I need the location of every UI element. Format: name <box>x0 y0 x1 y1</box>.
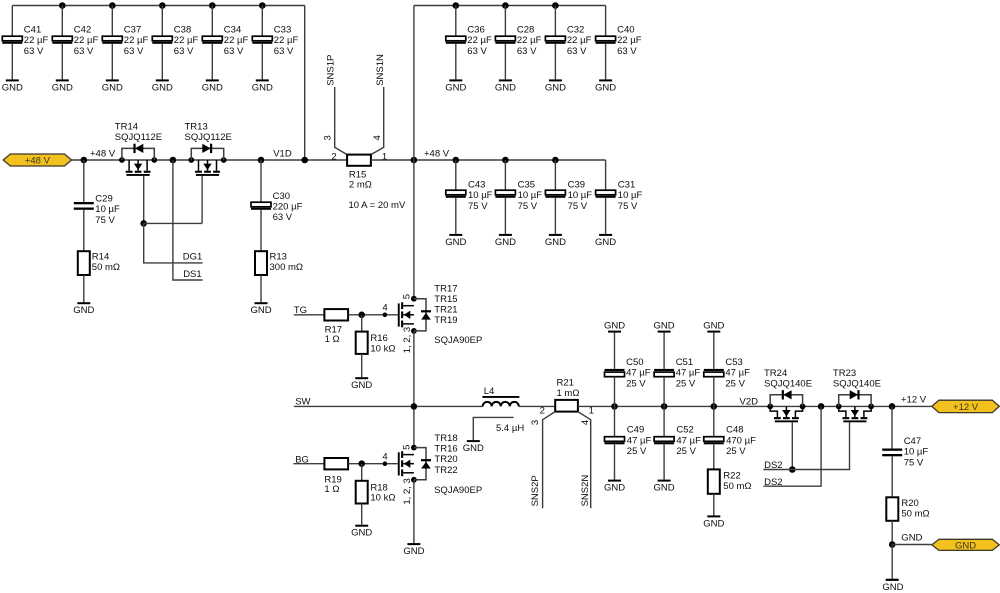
wire R14 to ground <box>83 275 85 302</box>
pin dot TR24 source <box>800 404 806 410</box>
transistor TR23 <box>839 390 871 422</box>
svg-text:TR20: TR20 <box>434 454 457 465</box>
wire C35 bottom lead <box>504 198 506 234</box>
wire V2D row R21 to +12V flag <box>578 405 932 407</box>
svg-text:GND: GND <box>102 82 123 93</box>
wire SNS1N sense lead <box>371 87 384 155</box>
junction at C36 column <box>453 2 460 9</box>
resistor R16 <box>356 332 368 354</box>
wire R18 top lead <box>361 464 363 481</box>
svg-text:SNS2N: SNS2N <box>580 475 591 507</box>
svg-text:C28: C28 <box>517 24 534 35</box>
capacitor C50 <box>605 369 625 377</box>
wire +48V rail down to TR17 <box>413 6 415 299</box>
capacitor C49 <box>605 437 625 445</box>
svg-text:V1D: V1D <box>273 148 292 159</box>
svg-text:2 mΩ: 2 mΩ <box>349 180 372 191</box>
junction TR14/TR13 mid node (DS1) <box>170 157 177 164</box>
svg-text:22 µF: 22 µF <box>517 35 542 46</box>
capacitor C30 <box>251 202 271 210</box>
svg-text:50 mΩ: 50 mΩ <box>901 508 929 519</box>
svg-text:4: 4 <box>580 420 591 425</box>
transistor TR14 <box>122 144 154 176</box>
wire C51 lower lead <box>663 377 665 407</box>
wire SW to R21 <box>519 405 555 407</box>
svg-text:GND: GND <box>604 483 625 494</box>
junction at C53/C48 column <box>711 403 718 410</box>
wire TR14 gate drop <box>143 176 145 224</box>
wire C53 lower lead <box>713 377 715 407</box>
inductor L4 <box>482 396 519 406</box>
capacitor C53 <box>704 369 724 377</box>
svg-text:GND: GND <box>202 82 223 93</box>
wire gate tie TR14-TR13 <box>144 222 202 224</box>
wire C38 bottom lead <box>161 44 163 80</box>
shunt resistor R15 <box>347 155 371 166</box>
capacitor C48 <box>704 437 724 445</box>
wire C29 to R14 <box>83 210 85 251</box>
resistor R19 <box>324 458 348 469</box>
svg-text:10 µF: 10 µF <box>518 190 543 201</box>
ground <box>351 377 372 391</box>
resistor R18 <box>356 481 368 504</box>
wire rail drop to V1D node <box>304 6 306 161</box>
wire R19 to gate <box>348 463 398 465</box>
svg-text:C30: C30 <box>273 191 290 202</box>
wire C43 top lead <box>455 160 457 190</box>
wire C40 top lead <box>605 6 607 37</box>
junction +48V rail node <box>411 157 418 164</box>
svg-text:63 V: 63 V <box>617 46 637 57</box>
svg-text:10 µF: 10 µF <box>568 190 593 201</box>
power flag +48 V <box>3 154 71 166</box>
svg-text:TR13: TR13 <box>185 122 208 133</box>
svg-text:C37: C37 <box>124 24 141 35</box>
transistor TR17 <box>398 299 431 331</box>
svg-text:GND: GND <box>463 443 484 454</box>
pin dot gate pin 4 <box>383 461 388 466</box>
wire C53 upper lead <box>713 333 715 369</box>
svg-text:22 µF: 22 µF <box>174 35 199 46</box>
svg-text:75 V: 75 V <box>568 201 588 212</box>
ground <box>2 79 23 93</box>
resistor R14 <box>78 251 90 275</box>
capacitor C52 <box>654 437 674 445</box>
capacitor C40 <box>596 36 616 44</box>
wire C30 to R13 <box>260 210 262 251</box>
junction at C42 column <box>59 2 66 9</box>
transistor TR24 <box>770 390 802 422</box>
wire C29 top lead <box>83 160 85 202</box>
svg-text:V2D: V2D <box>740 397 759 408</box>
pin dot TR18 source (1,2,3) <box>411 477 417 483</box>
svg-text:C40: C40 <box>617 24 634 35</box>
wire R16 to ground <box>361 354 363 377</box>
wire to DG1 stub <box>144 223 203 263</box>
junction SW rail node <box>411 403 418 410</box>
pin dot TR23 drain <box>868 404 874 410</box>
junction at C34 column <box>209 2 216 9</box>
wire TR24 gate drop <box>791 422 793 469</box>
wire C51 upper lead <box>663 333 665 369</box>
transistor TR13 <box>191 144 223 176</box>
svg-text:47 µF: 47 µF <box>676 368 701 379</box>
svg-text:SQJQ140E: SQJQ140E <box>764 378 812 389</box>
ground <box>545 234 566 248</box>
svg-text:GND: GND <box>351 380 372 391</box>
svg-text:+48 V: +48 V <box>424 148 450 159</box>
wire main +48V row (flag to R15) <box>72 159 348 161</box>
wire C37 top lead <box>111 6 113 37</box>
svg-text:R22: R22 <box>723 471 740 482</box>
svg-text:GND: GND <box>2 82 23 93</box>
svg-text:C51: C51 <box>676 357 693 368</box>
wire V1D row R15 to +48V node and right caps <box>371 159 606 161</box>
ground <box>654 480 675 494</box>
wire C34 top lead <box>211 6 213 37</box>
svg-text:TR21: TR21 <box>434 304 457 315</box>
wire C50 lower lead <box>614 377 616 407</box>
wire C31 top lead <box>605 160 607 190</box>
wire R17 to gate <box>348 314 398 316</box>
capacitor C32 <box>545 36 565 44</box>
junction at C35 column <box>502 157 509 164</box>
junction C30/V1D tap <box>258 157 265 164</box>
svg-text:C39: C39 <box>568 179 585 190</box>
svg-text:10 µF: 10 µF <box>618 190 643 201</box>
wire TG lead <box>294 314 325 316</box>
svg-text:75 V: 75 V <box>468 201 488 212</box>
svg-text:10 µF: 10 µF <box>904 447 929 458</box>
junction at C51/C52 column <box>661 403 668 410</box>
svg-text:63 V: 63 V <box>467 46 487 57</box>
junction at C43 column <box>453 157 460 164</box>
wire C37 bottom lead <box>111 44 113 80</box>
svg-text:C47: C47 <box>904 436 921 447</box>
pin dot TR14 source <box>151 157 157 163</box>
wire BG lead <box>293 463 324 465</box>
ground <box>703 515 724 529</box>
wire C28 top lead <box>504 6 506 37</box>
svg-text:GND: GND <box>52 82 73 93</box>
ground <box>595 79 616 93</box>
svg-text:4: 4 <box>382 452 387 463</box>
wire DS2 line 1 <box>763 422 849 469</box>
pin dot TR18 drain (5) <box>411 445 417 451</box>
wire TR13 gate drop <box>201 176 203 224</box>
wire C32 bottom lead <box>554 44 556 80</box>
svg-text:GND: GND <box>351 528 372 539</box>
wire C40 bottom lead <box>605 44 607 80</box>
junction V1D / top rail node <box>301 157 308 164</box>
svg-text:1 Ω: 1 Ω <box>324 484 339 495</box>
svg-text:C53: C53 <box>725 357 742 368</box>
wire C31 bottom lead <box>605 198 607 234</box>
svg-text:GND: GND <box>250 305 271 316</box>
pin dot TR17 drain (5) <box>411 296 417 302</box>
wire L4 shield lead <box>473 417 513 440</box>
svg-text:63 V: 63 V <box>124 46 144 57</box>
wire C48 upper lead <box>713 406 715 436</box>
ground <box>495 234 516 248</box>
svg-text:5: 5 <box>401 294 412 299</box>
wire C47 to R20 <box>891 456 893 497</box>
svg-text:C33: C33 <box>274 24 291 35</box>
svg-text:47 µF: 47 µF <box>627 435 652 446</box>
capacitor C35 <box>495 190 515 198</box>
junction at C37 column <box>109 2 116 9</box>
svg-text:75 V: 75 V <box>518 201 538 212</box>
junction at C38 column <box>159 2 166 9</box>
svg-text:3: 3 <box>323 135 334 140</box>
svg-text:220 µF: 220 µF <box>273 202 303 213</box>
svg-text:470 µF: 470 µF <box>726 435 756 446</box>
junction +12V node <box>889 403 896 410</box>
pin dot TR17 source (1,2,3) <box>411 328 417 334</box>
junction gate tie node <box>140 220 147 227</box>
wire top-left +48V input rail <box>12 5 304 7</box>
wire C49 lower lead <box>614 444 616 479</box>
svg-text:C31: C31 <box>618 179 635 190</box>
svg-text:C32: C32 <box>567 24 584 35</box>
wire C33 bottom lead <box>261 44 263 80</box>
wire SNS2N sense lead <box>578 412 591 509</box>
svg-text:63 V: 63 V <box>24 46 44 57</box>
svg-text:SNS1P: SNS1P <box>325 55 336 86</box>
svg-text:GND: GND <box>654 483 675 494</box>
svg-text:TR23: TR23 <box>833 368 856 379</box>
ground <box>703 321 724 333</box>
svg-text:47 µF: 47 µF <box>676 435 701 446</box>
svg-text:10 kΩ: 10 kΩ <box>370 343 395 354</box>
wire GND node down <box>891 545 893 579</box>
wire C52 upper lead <box>663 406 665 436</box>
svg-text:C48: C48 <box>726 425 743 436</box>
svg-text:25 V: 25 V <box>626 378 646 389</box>
svg-text:GND: GND <box>654 321 675 332</box>
junction at C39 column <box>552 157 559 164</box>
ground <box>202 79 223 93</box>
wire R18 to ground <box>361 504 363 525</box>
junction TR24/TR23 mid node <box>818 403 825 410</box>
wire TR18 source to ground <box>413 480 415 543</box>
svg-text:DS1: DS1 <box>183 269 201 280</box>
svg-text:DS2: DS2 <box>764 460 782 471</box>
svg-text:GND: GND <box>545 237 566 248</box>
svg-text:GND: GND <box>901 533 922 544</box>
svg-text:R21: R21 <box>557 378 574 389</box>
wire C28 bottom lead <box>504 44 506 80</box>
svg-text:5.4 µH: 5.4 µH <box>496 423 524 434</box>
wire C43 bottom lead <box>455 198 457 234</box>
junction GND node <box>889 541 896 548</box>
ground <box>351 525 372 539</box>
svg-text:TR19: TR19 <box>434 315 457 326</box>
power flag GND <box>932 539 999 551</box>
wire SNS1P sense lead <box>335 87 347 155</box>
wire C42 top lead <box>61 6 63 37</box>
svg-text:R14: R14 <box>92 252 109 263</box>
capacitor C33 <box>252 36 272 44</box>
capacitor C38 <box>152 36 172 44</box>
svg-text:10 A = 20 mV: 10 A = 20 mV <box>349 200 406 211</box>
wire rail TR17 source to SW and TR18 drain <box>413 331 415 448</box>
svg-text:22 µF: 22 µF <box>567 35 592 46</box>
svg-text:10 µF: 10 µF <box>95 204 120 215</box>
svg-text:63 V: 63 V <box>273 212 293 223</box>
svg-text:GND: GND <box>73 305 94 316</box>
shunt resistor R21 <box>555 400 578 412</box>
svg-text:75 V: 75 V <box>618 201 638 212</box>
wire C36 bottom lead <box>455 44 457 80</box>
svg-text:2: 2 <box>331 151 336 162</box>
capacitor C31 <box>596 190 616 198</box>
svg-text:50 mΩ: 50 mΩ <box>92 262 120 273</box>
pin dot TR24 drain <box>767 404 773 410</box>
svg-text:DS2: DS2 <box>764 477 782 488</box>
svg-text:C41: C41 <box>24 24 41 35</box>
svg-text:1 mΩ: 1 mΩ <box>557 388 580 399</box>
junction DS2 gate node <box>789 466 796 473</box>
svg-text:GND: GND <box>595 82 616 93</box>
svg-text:+48 V: +48 V <box>25 155 51 166</box>
svg-text:1, 2, 3: 1, 2, 3 <box>402 478 413 504</box>
capacitor C28 <box>495 36 515 44</box>
svg-text:10 µF: 10 µF <box>468 190 493 201</box>
svg-text:75 V: 75 V <box>95 215 115 226</box>
svg-text:GND: GND <box>703 518 724 529</box>
svg-text:C35: C35 <box>518 179 535 190</box>
ground <box>152 79 173 93</box>
svg-text:63 V: 63 V <box>517 46 537 57</box>
ground <box>604 480 625 494</box>
ground <box>463 440 484 454</box>
svg-text:L4: L4 <box>484 386 495 397</box>
svg-text:C43: C43 <box>468 179 485 190</box>
svg-text:C49: C49 <box>627 425 644 436</box>
wire top-right rail <box>414 5 606 7</box>
resistor R20 <box>886 497 898 521</box>
svg-text:TR17: TR17 <box>434 283 457 294</box>
svg-text:C34: C34 <box>224 24 241 35</box>
svg-text:SQJA90EP: SQJA90EP <box>434 335 482 346</box>
svg-text:C52: C52 <box>676 425 693 436</box>
svg-text:25 V: 25 V <box>726 446 746 457</box>
svg-text:+12 V: +12 V <box>953 402 979 413</box>
pin dot gate pin 4 <box>383 313 388 318</box>
svg-text:GND: GND <box>595 237 616 248</box>
capacitor C51 <box>654 369 674 377</box>
wire C30 top lead <box>260 160 262 202</box>
svg-text:GND: GND <box>882 582 903 593</box>
transistor TR18 <box>398 448 431 480</box>
svg-text:63 V: 63 V <box>174 46 194 57</box>
svg-text:1: 1 <box>589 406 594 417</box>
ground <box>250 302 271 316</box>
junction R18 tap <box>358 460 365 467</box>
svg-text:R20: R20 <box>901 498 918 509</box>
svg-text:DG1: DG1 <box>183 252 203 263</box>
svg-text:TR16: TR16 <box>434 444 457 455</box>
svg-text:63 V: 63 V <box>224 46 244 57</box>
wire C48 to R22 <box>713 444 715 469</box>
wire R20 to GND node <box>891 521 893 545</box>
ground <box>102 79 123 93</box>
svg-text:R13: R13 <box>270 252 287 263</box>
wire C35 top lead <box>504 160 506 190</box>
svg-text:GND: GND <box>495 237 516 248</box>
junction at C32 column <box>552 2 559 9</box>
ground <box>545 79 566 93</box>
svg-text:47 µF: 47 µF <box>626 368 651 379</box>
svg-text:+48 V: +48 V <box>90 148 116 159</box>
ground <box>654 321 675 333</box>
svg-text:SQJQ140E: SQJQ140E <box>833 378 881 389</box>
svg-text:SQJA90EP: SQJA90EP <box>434 485 482 496</box>
capacitor C41 <box>2 36 22 44</box>
resistor R13 <box>255 251 267 275</box>
svg-text:22 µF: 22 µF <box>467 35 492 46</box>
svg-text:22 µF: 22 µF <box>74 35 99 46</box>
svg-text:25 V: 25 V <box>725 378 745 389</box>
svg-text:C50: C50 <box>626 357 643 368</box>
svg-text:GND: GND <box>152 82 173 93</box>
power flag +12 V <box>932 400 999 413</box>
resistor R17 <box>324 309 348 320</box>
svg-text:4: 4 <box>372 135 383 140</box>
svg-text:C38: C38 <box>174 24 191 35</box>
svg-text:63 V: 63 V <box>74 46 94 57</box>
wire C41 top lead <box>11 6 13 37</box>
svg-text:25 V: 25 V <box>627 446 647 457</box>
svg-text:TR15: TR15 <box>434 294 457 305</box>
svg-text:1, 2, 3: 1, 2, 3 <box>402 327 413 353</box>
resistor R22 <box>708 469 720 493</box>
wire to DS1 stub <box>173 160 203 280</box>
wire GND node to flag <box>892 544 932 546</box>
svg-text:63 V: 63 V <box>567 46 587 57</box>
wire C32 top lead <box>554 6 556 37</box>
capacitor C37 <box>102 36 122 44</box>
svg-text:22 µF: 22 µF <box>24 35 49 46</box>
wire C38 top lead <box>161 6 163 37</box>
wire C52 lower lead <box>663 444 665 479</box>
svg-text:3: 3 <box>530 420 541 425</box>
ground <box>403 543 424 557</box>
wire SW row <box>294 405 483 407</box>
wire C49 upper lead <box>614 406 616 436</box>
wire C33 top lead <box>261 6 263 37</box>
ground <box>882 579 903 593</box>
capacitor C36 <box>446 36 466 44</box>
svg-text:22 µF: 22 µF <box>617 35 642 46</box>
svg-text:50 mΩ: 50 mΩ <box>723 481 751 492</box>
svg-text:25 V: 25 V <box>676 446 696 457</box>
junction C29 tap <box>81 157 88 164</box>
wire C34 bottom lead <box>211 44 213 80</box>
svg-text:GND: GND <box>403 546 424 557</box>
junction at C33 column <box>259 2 266 9</box>
capacitor C43 <box>446 190 466 198</box>
svg-text:TR18: TR18 <box>434 433 457 444</box>
svg-text:75 V: 75 V <box>904 457 924 468</box>
ground <box>52 79 73 93</box>
wire C39 bottom lead <box>554 198 556 234</box>
junction at C28 column <box>502 2 509 9</box>
svg-text:SNS2P: SNS2P <box>530 475 541 506</box>
svg-text:22 µF: 22 µF <box>224 35 249 46</box>
pin dot TR13 source <box>188 157 194 163</box>
